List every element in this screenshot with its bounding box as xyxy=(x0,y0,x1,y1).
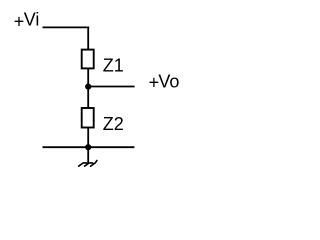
node junction dot (Vo tap) xyxy=(85,84,91,90)
node junction dot (ground rail) xyxy=(85,144,91,150)
wire: top vertical to Z1 xyxy=(87,27,89,50)
wire: output to +Vo xyxy=(88,86,134,88)
resistor Z1 (rectangle body) xyxy=(82,50,94,69)
svg-text:+Vi: +Vi xyxy=(14,9,40,31)
svg-text:Z1: Z1 xyxy=(103,56,124,76)
wire: Z2 bottom to ground rail xyxy=(87,128,89,148)
wire: node down to Z2 xyxy=(87,87,89,108)
svg-text:Z2: Z2 xyxy=(103,114,124,134)
svg-text:+Vo: +Vo xyxy=(149,71,180,92)
ground symbol (chassis squiggle) xyxy=(79,161,97,167)
wire: +Vi horizontal xyxy=(43,26,90,28)
wire: stub down to ground symbol xyxy=(87,147,89,163)
resistor Z2 (rectangle body) xyxy=(82,108,94,128)
wire: Z1 bottom to node xyxy=(87,68,89,86)
wire: bottom ground rail xyxy=(43,146,135,148)
